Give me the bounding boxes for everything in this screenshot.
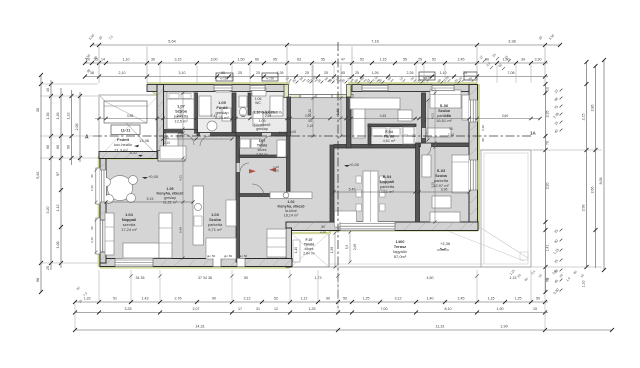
window openings [96, 72, 478, 267]
svg-text:1.05: 1.05 [166, 187, 173, 191]
svg-text:2,07: 2,07 [193, 307, 200, 311]
svg-text:18,14 m²: 18,14 m² [284, 214, 299, 218]
svg-text:90: 90 [326, 297, 330, 301]
svg-text:63: 63 [297, 58, 301, 62]
storage room (notch) white floor [291, 233, 329, 267]
svg-text:13,08: 13,08 [279, 131, 288, 135]
svg-text:F-04: F-04 [385, 130, 394, 134]
svg-text:50: 50 [536, 297, 540, 301]
svg-text:2,10: 2,10 [273, 169, 279, 173]
dimension chain: right line 3 [595, 66, 597, 268]
label: tároló strip [256, 139, 268, 157]
svg-text:66: 66 [46, 145, 50, 149]
svg-text:2,10: 2,10 [308, 109, 312, 115]
svg-text:5,64: 5,64 [168, 40, 175, 44]
label: carport [111, 125, 150, 153]
label: konyha étkező east [277, 200, 305, 218]
small texts above bottom wall [207, 254, 248, 258]
wall: bedroom S-03 north [419, 143, 469, 147]
furniture: small door arc kitchen [252, 184, 264, 196]
dimension chain: bottom line 2 [75, 312, 548, 314]
window: top wall bath [214, 85, 232, 91]
svg-text:1,12: 1,12 [56, 205, 60, 212]
svg-text:11-11: 11-11 [121, 128, 132, 133]
svg-text:3,00: 3,00 [211, 58, 218, 62]
furniture: bath F-03 fixtures [199, 96, 211, 116]
svg-text:50: 50 [244, 276, 248, 280]
svg-text:87,0m²: 87,0m² [394, 254, 407, 259]
svg-text:1,43: 1,43 [142, 297, 149, 301]
label: wc 1.06 [255, 97, 276, 114]
recessed porch white area above glazing [288, 84, 348, 94]
svg-text:37 34 36: 37 34 36 [198, 276, 212, 280]
dimension chain: top line 3 [85, 76, 548, 78]
svg-text:1,90: 1,90 [500, 325, 507, 329]
svg-text:2,84 m²: 2,84 m² [303, 252, 315, 256]
svg-text:2,71: 2,71 [177, 135, 184, 139]
furniture: bath F-04 fixtures [372, 128, 386, 136]
svg-text:60: 60 [255, 58, 259, 62]
door: laundry [237, 163, 240, 172]
section line A-A horizontal [93, 135, 533, 137]
svg-text:+0,00: +0,00 [148, 174, 159, 179]
label: szoba S-06 [436, 103, 452, 123]
svg-text:5,15: 5,15 [147, 197, 154, 201]
furniture: sofa living [123, 243, 159, 258]
svg-text:52: 52 [274, 297, 278, 301]
wall: top exterior right section [352, 85, 477, 92]
svg-text:koc.beálló: koc.beálló [114, 142, 133, 147]
svg-text:21,3 m²: 21,3 m² [114, 148, 128, 153]
svg-text:40: 40 [46, 88, 50, 92]
extension lines: top [98, 47, 100, 84]
svg-text:1,15: 1,15 [510, 276, 517, 280]
svg-text:+3,36: +3,36 [440, 241, 451, 246]
room WC white floor [236, 88, 287, 134]
dimension chain: top line 1 [92, 44, 560, 46]
wall: right exterior [469, 85, 478, 230]
svg-text:1,22: 1,22 [67, 113, 71, 120]
svg-text:25: 25 [238, 71, 242, 75]
svg-text:11,21 m²: 11,21 m² [163, 201, 178, 205]
wall: kitchen west [347, 97, 352, 148]
svg-text:2,96: 2,96 [353, 244, 357, 250]
svg-text:2,08: 2,08 [75, 124, 79, 131]
wall: laundry divider [239, 194, 287, 197]
svg-text:3,12: 3,12 [395, 297, 402, 301]
svg-text:7,00: 7,00 [381, 307, 388, 311]
svg-text:38: 38 [90, 71, 94, 75]
svg-text:90: 90 [165, 136, 169, 140]
level marker dining [344, 162, 360, 167]
svg-text:gm 50: gm 50 [207, 254, 216, 258]
window: left wall living [100, 170, 106, 202]
label: terasz [393, 239, 408, 259]
svg-text:90: 90 [221, 71, 225, 75]
wall: bedroom S-03 west [416, 143, 420, 222]
furniture: dining table big room [363, 171, 378, 223]
svg-text:55: 55 [403, 58, 407, 62]
svg-text:1,98: 1,98 [330, 247, 334, 253]
wall: laundry east [287, 136, 291, 196]
svg-text:25: 25 [46, 266, 50, 270]
svg-text:4,45: 4,45 [380, 114, 387, 118]
svg-text:Fürdő: Fürdő [384, 135, 395, 139]
window: top wall S-06 [432, 85, 454, 91]
svg-text:+0,00: +0,00 [349, 162, 360, 167]
furniture: kitchen top counters [353, 98, 365, 138]
furniture: bed bedroom1 [167, 92, 194, 129]
svg-text:2,10: 2,10 [164, 141, 170, 145]
svg-text:47: 47 [341, 58, 345, 62]
interior dimension chain: vertical x183 [182, 93, 184, 258]
terrace diagonal [481, 228, 528, 258]
wall: bedroom S-06 west [422, 93, 426, 143]
interior dimension chain: vertical x435 [434, 88, 436, 222]
svg-text:1,90: 1,90 [497, 307, 504, 311]
label: nappali 1.04 [121, 212, 137, 232]
svg-text:90: 90 [90, 174, 94, 178]
svg-text:3,20: 3,20 [546, 183, 550, 190]
svg-text:97: 97 [404, 134, 408, 138]
svg-text:95: 95 [273, 58, 277, 62]
wall: living east / dining west [330, 145, 334, 222]
svg-text:39: 39 [521, 58, 525, 62]
svg-text:4,01: 4,01 [431, 113, 435, 119]
svg-text:greslap: greslap [164, 196, 176, 200]
window: glazing mullions [300, 95, 332, 99]
svg-text:3,60: 3,60 [502, 114, 509, 118]
dimension chain: left line 2 [50, 80, 52, 270]
svg-text:5,45: 5,45 [349, 188, 356, 192]
svg-text:31: 31 [256, 307, 260, 311]
label: bedroom 1.07 [174, 104, 189, 124]
floor: main gray interior [101, 88, 477, 263]
window sill boxes above facade [216, 72, 477, 81]
dimension chain: right line 2 [586, 62, 588, 268]
svg-text:2,35: 2,35 [546, 111, 550, 118]
dimension chain: right line 1 [545, 84, 547, 292]
svg-text:2,10: 2,10 [90, 185, 94, 191]
svg-text:WC: WC [255, 101, 261, 105]
svg-text:2,86: 2,86 [591, 105, 595, 112]
svg-text:gm 50: gm 50 [239, 254, 248, 258]
svg-text:23: 23 [412, 134, 416, 138]
svg-text:greslap: greslap [256, 127, 268, 131]
wall: bath F-03 east [232, 93, 236, 136]
svg-text:3,38: 3,38 [508, 40, 515, 44]
furniture: WC fixtures [239, 96, 247, 107]
svg-text:14: 14 [101, 58, 105, 62]
door: bedroom1 [183, 130, 194, 134]
svg-text:1,36: 1,36 [46, 113, 50, 120]
svg-text:A: A [85, 135, 89, 141]
svg-text:17: 17 [238, 307, 242, 311]
svg-text:2,42: 2,42 [211, 114, 218, 118]
svg-text:2,12: 2,12 [244, 297, 251, 301]
svg-text:1,10: 1,10 [336, 109, 340, 115]
wall: carport/interior divider [157, 85, 164, 159]
svg-text:4,01: 4,01 [423, 117, 427, 123]
svg-text:3,20: 3,20 [46, 207, 50, 214]
svg-text:1,10: 1,10 [440, 71, 447, 75]
shutter boxes outside left wall [96, 168, 100, 204]
svg-text:1,26: 1,26 [277, 71, 284, 75]
svg-text:90: 90 [449, 127, 453, 131]
wall: carport south (house north-west wall) [99, 152, 160, 159]
label: fürdő F-04 [383, 130, 396, 143]
level marker carport [129, 151, 143, 157]
svg-text:1,10: 1,10 [123, 58, 130, 62]
furniture: round dining table living [108, 176, 133, 201]
dimension chain: bottom line 3 [75, 329, 612, 331]
svg-text:38,1 m²: 38,1 m² [380, 189, 394, 194]
wall hatches [100, 88, 477, 267]
svg-text:34 35: 34 35 [136, 276, 145, 280]
svg-text:90: 90 [485, 58, 489, 62]
dimension chain: bottom line 1 [75, 301, 548, 303]
interior walls [164, 93, 470, 262]
svg-text:5,48: 5,48 [179, 227, 183, 233]
svg-text:8,10: 8,10 [445, 307, 452, 311]
door: S-03 [421, 144, 431, 148]
svg-text:2,10: 2,10 [90, 237, 94, 243]
carport white floor [99, 95, 159, 157]
carport car rectangle [104, 101, 147, 123]
extension lines: bottom [98, 270, 100, 301]
svg-text:la-köve: la-köve [285, 209, 297, 213]
svg-text:52: 52 [432, 58, 436, 62]
exterior insulation line (yellow-green) [99, 83, 479, 267]
section line vertical [337, 42, 339, 308]
svg-text:1,15: 1,15 [380, 58, 387, 62]
interior dimension chain: horizontal through plan [95, 118, 540, 120]
wall: WC west partition [248, 93, 251, 115]
svg-text:4,61 m²: 4,61 m² [383, 139, 396, 143]
svg-text:14,31: 14,31 [195, 325, 205, 329]
furniture: storage room shelf [293, 240, 300, 262]
svg-text:90: 90 [212, 297, 216, 301]
svg-text:20: 20 [86, 58, 90, 62]
svg-text:1,26: 1,26 [56, 113, 60, 120]
svg-text:2,76: 2,76 [175, 297, 182, 301]
svg-text:1,10: 1,10 [294, 247, 298, 253]
svg-text:7,08: 7,08 [508, 71, 515, 75]
door: WC [262, 133, 271, 137]
furniture: kitchen counters room 1.03 [206, 238, 236, 259]
wall: top recessed glazing section [287, 95, 353, 98]
svg-text:4,31: 4,31 [179, 175, 183, 181]
window: bottom-right wall dining door [340, 222, 395, 231]
svg-text:1.02: 1.02 [287, 200, 294, 204]
svg-text:Konyha, étkező: Konyha, étkező [156, 192, 184, 196]
svg-text:8,08: 8,08 [599, 178, 603, 185]
svg-text:3,53: 3,53 [179, 108, 183, 114]
svg-text:1,25: 1,25 [363, 297, 370, 301]
wall: hall/laundry west [236, 136, 240, 262]
svg-text:2,10: 2,10 [119, 71, 126, 75]
window: bottom wall living [115, 259, 153, 267]
svg-text:55: 55 [321, 58, 325, 62]
window: top wall WC [250, 85, 265, 91]
wall: bottom exterior [100, 259, 292, 267]
svg-text:5,81: 5,81 [36, 171, 40, 178]
svg-text:51: 51 [113, 297, 117, 301]
furniture: kitchen counter with sink [270, 192, 312, 199]
svg-text:1,25: 1,25 [309, 307, 316, 311]
furniture: living shelf west [105, 213, 114, 255]
svg-text:1,10: 1,10 [582, 281, 586, 288]
wall: storage west wall [286, 228, 292, 267]
wall: kitchen partition [239, 155, 287, 158]
svg-text:köves: köves [305, 247, 314, 251]
svg-text:2,84 m²: 2,84 m² [256, 153, 268, 157]
svg-text:25: 25 [355, 71, 359, 75]
svg-text:3,75: 3,75 [431, 182, 435, 188]
svg-text:-0,02: -0,02 [129, 151, 137, 155]
svg-text:25: 25 [463, 71, 467, 75]
svg-text:3,98: 3,98 [582, 205, 586, 212]
svg-text:m 150: m 150 [266, 77, 275, 81]
svg-text:3,30: 3,30 [535, 58, 542, 62]
svg-text:9,71 m²: 9,71 m² [208, 227, 222, 232]
door: bath F-03 [200, 133, 210, 137]
carport roof diagonal [100, 96, 158, 156]
furniture: hall cabinet [160, 146, 186, 159]
svg-text:1,25: 1,25 [515, 297, 522, 301]
svg-text:Tároló: Tároló [257, 144, 267, 148]
svg-text:1,90: 1,90 [503, 58, 510, 62]
interior dimension: S-03 width [419, 191, 469, 193]
wall: gépészeti east [287, 97, 291, 136]
interior dimension: window verticals in plan [312, 65, 314, 137]
wall: bath F-04 walls [334, 145, 418, 149]
svg-text:3,15: 3,15 [175, 58, 182, 62]
wall: bedroom1 east [194, 93, 198, 133]
wall: top exterior left section [99, 85, 478, 268]
terrace L-shaped deck [329, 150, 531, 267]
svg-text:2,16: 2,16 [448, 133, 454, 137]
svg-text:2,26: 2,26 [407, 71, 414, 75]
label: storage notch room [294, 238, 316, 256]
dimension chain: top line 2 [85, 62, 548, 64]
interior dimension: hall line [163, 138, 232, 140]
svg-text:2,15: 2,15 [582, 114, 586, 121]
red door direction arrows [249, 168, 276, 174]
svg-text:90: 90 [90, 226, 94, 230]
svg-text:1.07: 1.07 [259, 139, 266, 143]
dimension chain: right line 4 [603, 60, 605, 270]
svg-text:15: 15 [533, 307, 537, 311]
svg-text:90: 90 [321, 225, 325, 229]
interior dimension: S-06 room [427, 100, 429, 140]
wall: glazing corner right [347, 85, 352, 98]
svg-text:gm 50: gm 50 [224, 254, 233, 258]
dimension chain: left line 4 [71, 90, 73, 165]
svg-text:30: 30 [151, 58, 155, 62]
wall: bath F-03 south [197, 133, 236, 137]
svg-text:Tároló: Tároló [304, 243, 314, 247]
svg-text:66: 66 [67, 145, 71, 149]
label: konyha étkező west [156, 187, 184, 205]
svg-text:1,12: 1,12 [301, 297, 308, 301]
interior dimension: notch verticals [334, 233, 336, 267]
door: entry from carport [158, 151, 185, 162]
level marker terrace [437, 241, 451, 250]
wall: bedroom1 south [164, 130, 198, 134]
svg-text:11,31: 11,31 [435, 325, 444, 329]
interior dimension: living room width [106, 201, 193, 203]
svg-text:97: 97 [56, 172, 60, 176]
svg-text:F-07: F-07 [306, 238, 313, 242]
furniture: sofa dining room [335, 211, 357, 227]
svg-text:2,16: 2,16 [307, 124, 313, 128]
svg-text:5,5: 5,5 [345, 245, 349, 250]
svg-text:13,5 m²: 13,5 m² [174, 119, 188, 124]
svg-text:10: 10 [546, 87, 550, 91]
svg-text:50: 50 [343, 297, 347, 301]
svg-text:95: 95 [241, 114, 245, 118]
svg-text:98: 98 [481, 138, 485, 142]
room bathroom F-04 white floor [370, 126, 416, 146]
svg-text:1,40: 1,40 [427, 297, 434, 301]
svg-text:3,96: 3,96 [441, 188, 448, 192]
door: S-06 [422, 128, 426, 138]
furniture: laundry machines [240, 139, 250, 148]
svg-text:25: 25 [324, 71, 328, 75]
svg-text:1,26: 1,26 [372, 71, 379, 75]
svg-text:4,50: 4,50 [427, 276, 434, 280]
svg-text:2,45: 2,45 [458, 297, 465, 301]
right extension lines [480, 149, 544, 151]
svg-text:25: 25 [94, 58, 98, 62]
svg-text:8,25 m²: 8,25 m² [215, 115, 229, 120]
interior dimension: terrace marks [349, 232, 351, 262]
label: nappali étkező B-04 [380, 174, 395, 194]
label: közlekedő [254, 119, 288, 135]
furniture: bed S-06 [430, 90, 461, 108]
svg-text:98: 98 [36, 278, 40, 282]
svg-text:2,16: 2,16 [481, 125, 485, 131]
svg-text:2,66: 2,66 [591, 187, 595, 194]
svg-text:2,45: 2,45 [458, 58, 465, 62]
svg-text:7,16: 7,16 [371, 40, 378, 44]
svg-text:25: 25 [305, 71, 309, 75]
furniture: kitchen counter island [193, 186, 204, 245]
wall: WC south [236, 133, 290, 137]
svg-text:66: 66 [56, 145, 60, 149]
door openings and swing arcs [101, 128, 436, 252]
window: right wall S-03 [469, 160, 478, 190]
svg-text:köves: köves [258, 148, 267, 152]
room bathroom F-03 white floor [198, 88, 232, 133]
svg-text:12: 12 [274, 307, 278, 311]
svg-text:45: 45 [341, 71, 345, 75]
svg-text:30: 30 [36, 108, 40, 112]
label: szoba 1.03 [208, 212, 223, 232]
dimensions [36, 33, 614, 332]
wall: left exterior [100, 156, 106, 263]
svg-text:55: 55 [308, 119, 312, 123]
window: right wall S-06 [469, 100, 478, 122]
wall: glazing corner left [284, 85, 289, 98]
svg-text:1A: 1A [530, 131, 537, 136]
svg-text:2,54: 2,54 [265, 114, 272, 118]
svg-text:1,33: 1,33 [84, 297, 91, 301]
svg-text:25: 25 [256, 71, 260, 75]
svg-text:1,08: 1,08 [56, 242, 60, 249]
dimension chain: left line 3 [60, 88, 62, 268]
